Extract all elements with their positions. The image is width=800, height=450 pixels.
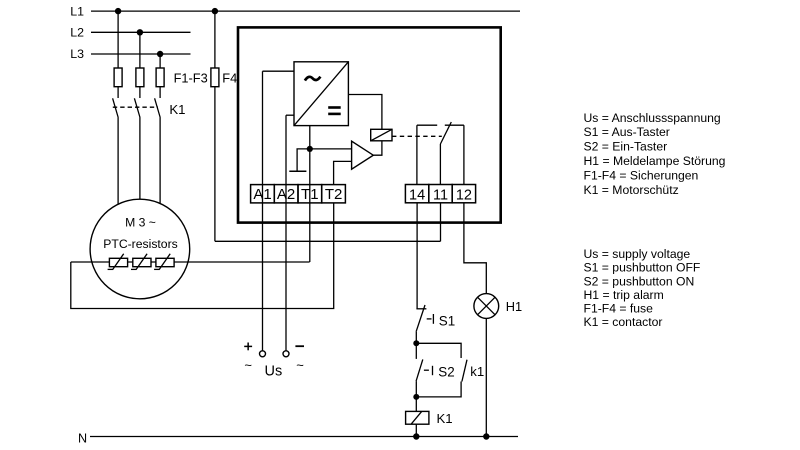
svg-text:M 3 ~: M 3 ~ [125,216,156,230]
svg-text:Us: Us [265,364,283,380]
svg-text:L1: L1 [70,4,84,18]
svg-text:PTC-resistors: PTC-resistors [103,237,177,251]
svg-text:S1 = Aus-Taster: S1 = Aus-Taster [584,125,670,139]
svg-text:H1 = trip alarm: H1 = trip alarm [584,288,664,302]
svg-text:T1: T1 [301,186,319,203]
svg-text:Us = supply voltage: Us = supply voltage [584,247,691,261]
svg-text:~: ~ [296,358,304,373]
svg-text:S2: S2 [438,365,454,380]
svg-text:A2: A2 [277,186,295,203]
svg-text:L2: L2 [70,26,84,40]
svg-text:12: 12 [456,187,472,203]
svg-text:S2 = pushbutton ON: S2 = pushbutton ON [584,274,695,288]
svg-text:S1: S1 [439,313,455,328]
svg-text:K1 = contactor: K1 = contactor [584,315,663,329]
svg-text:L3: L3 [70,47,84,61]
svg-text:H1 = Meldelampe Störung: H1 = Meldelampe Störung [584,154,726,168]
svg-text:S1 = pushbutton OFF: S1 = pushbutton OFF [584,261,701,275]
svg-text:F4: F4 [222,71,237,86]
svg-text:T2: T2 [325,186,343,203]
svg-text:~: ~ [244,358,252,373]
svg-text:N: N [78,432,87,446]
svg-text:F1-F4 = Sicherungen: F1-F4 = Sicherungen [584,168,699,182]
svg-text:A1: A1 [253,186,271,203]
svg-text:H1: H1 [506,299,522,314]
svg-text:11: 11 [433,187,448,203]
svg-text:F1-F3: F1-F3 [174,71,208,86]
svg-text:K1: K1 [169,102,185,117]
svg-text:K1 = Motorschütz: K1 = Motorschütz [584,183,679,197]
svg-text:k1: k1 [470,364,484,379]
svg-text:Us = Anschlussspannung: Us = Anschlussspannung [584,111,721,125]
svg-text:S2 = Ein-Taster: S2 = Ein-Taster [584,140,668,154]
svg-text:K1: K1 [437,411,453,426]
svg-text:F1-F4 = fuse: F1-F4 = fuse [584,302,654,316]
svg-text:14: 14 [409,187,425,203]
